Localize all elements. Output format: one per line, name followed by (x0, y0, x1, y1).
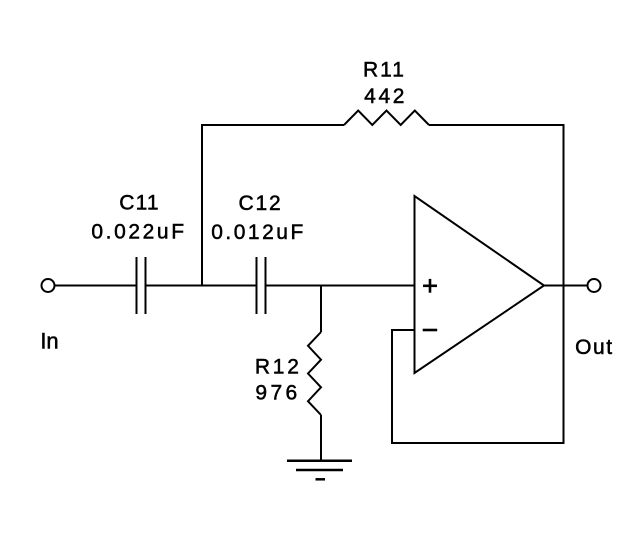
input terminal In (42, 279, 55, 292)
svg-text:Out: Out (575, 336, 614, 359)
svg-text:0.012uF: 0.012uF (211, 221, 306, 244)
op-amp plus sign (423, 279, 437, 293)
ground (287, 461, 352, 480)
wire to inverting input (391, 329, 415, 331)
resistor R12 (308, 332, 321, 415)
node B vertical wire (320, 286, 322, 333)
wire R11 to top right corner (429, 124, 564, 126)
svg-text:C11: C11 (119, 192, 160, 215)
capacitor C11 (137, 257, 146, 314)
right vertical wire (output/feedback) (563, 124, 565, 444)
op-amp minus sign (423, 329, 438, 332)
op-amp U1 (415, 196, 545, 373)
output terminal Out (588, 279, 601, 292)
bottom feedback wire (391, 442, 565, 444)
svg-text:R11: R11 (363, 59, 406, 82)
svg-text:976: 976 (255, 382, 300, 405)
svg-text:0.022uF: 0.022uF (91, 221, 186, 244)
resistor R11 (344, 111, 429, 126)
svg-text:R12: R12 (255, 356, 302, 379)
capacitor C12 (257, 257, 266, 314)
wire op-amp output (544, 285, 588, 287)
svg-text:C12: C12 (239, 192, 283, 215)
wire R12 to ground (320, 415, 322, 461)
node A vertical wire (201, 124, 203, 286)
svg-text:442: 442 (364, 85, 407, 108)
wire input to C11 (55, 285, 137, 287)
wire C11 to C12 (146, 285, 257, 287)
wire top left to R11 (201, 124, 344, 126)
left feedback vertical wire (391, 330, 393, 444)
svg-text:In: In (40, 329, 58, 354)
wire C12 to op-amp + input (266, 285, 415, 287)
